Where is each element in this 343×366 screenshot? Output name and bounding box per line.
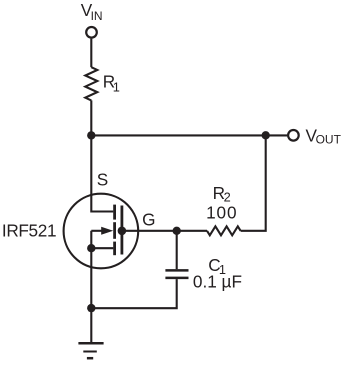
svg-text:OUT: OUT <box>316 133 342 147</box>
svg-text:1: 1 <box>113 80 120 95</box>
svg-text:G: G <box>142 210 155 230</box>
svg-text:IN: IN <box>91 9 103 23</box>
svg-text:S: S <box>97 169 108 189</box>
svg-text:IRF521: IRF521 <box>2 221 56 241</box>
svg-text:0.1 µF: 0.1 µF <box>193 272 242 292</box>
svg-text:100: 100 <box>206 202 237 222</box>
